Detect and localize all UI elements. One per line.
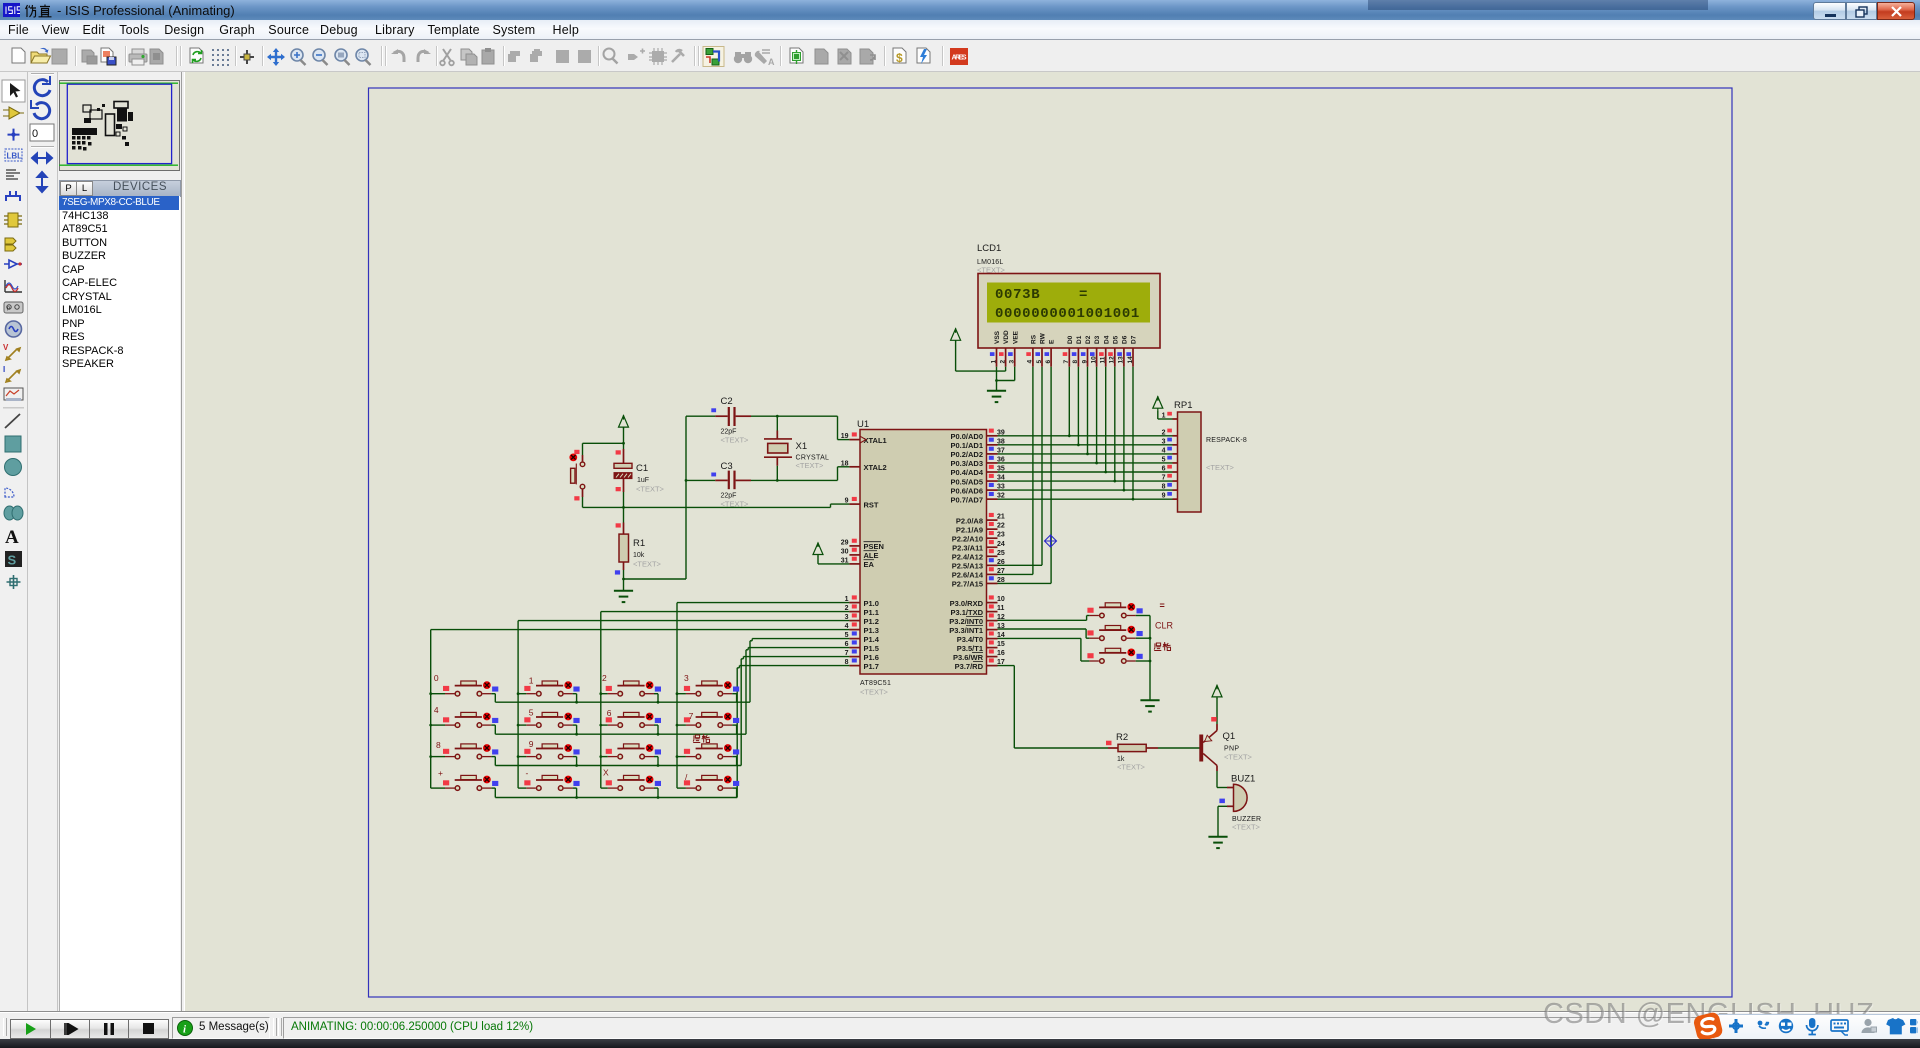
- main toolbar icons: [0, 40, 980, 71]
- svg-text:D7: D7: [1131, 335, 1138, 344]
- svg-text:5: 5: [1036, 360, 1043, 364]
- svg-text:RST: RST: [864, 500, 879, 509]
- transistor Q1 PNP: [1199, 731, 1217, 766]
- wire keypad column 2 to P1.1: [601, 612, 850, 789]
- svg-text:P0.2/AD2: P0.2/AD2: [950, 450, 983, 459]
- wire keypad row 3 to P1.7: [495, 666, 849, 798]
- U1 pin 35 (P0.4/AD4): [950, 465, 1004, 477]
- U1 pin 11 (P3.1/TXD): [950, 604, 1004, 616]
- U1 pin 1 (P1.0): [845, 595, 879, 607]
- window close button: [1877, 2, 1915, 20]
- U1 pin 7 (P1.6): [845, 649, 879, 661]
- keypad button row 1 col 3 (7): [676, 711, 740, 734]
- X1 property text: [796, 461, 825, 470]
- svg-text:C2: C2: [721, 396, 733, 407]
- svg-text:6: 6: [1162, 466, 1166, 473]
- svg-text:PSEN: PSEN: [864, 542, 884, 551]
- wire keypad row 2 to P1.6: [495, 657, 849, 766]
- left mode toolbar icons: [0, 72, 27, 1012]
- window title bar: [0, 0, 1920, 20]
- keypad button row 3 col 1 (-): [518, 768, 580, 799]
- C2 property text: [721, 436, 750, 445]
- svg-text:4: 4: [1027, 360, 1034, 364]
- wire power to EA: [818, 556, 849, 564]
- LCD1 pin 6 (E): [1045, 339, 1056, 367]
- wire power to RP1 pin 1: [1158, 410, 1173, 419]
- devices P button: [60, 181, 77, 196]
- wire P0.0 row to RP1 pin 2: [998, 435, 1173, 437]
- svg-text:LCD1: LCD1: [977, 243, 1001, 254]
- resistor R1 body: [619, 534, 629, 562]
- schematic sheet border: [369, 88, 1733, 997]
- buzzer BUZ1 symbol: [1234, 784, 1248, 811]
- keypad button row 2 col 1 (9): [517, 739, 580, 767]
- wire R1 bottom to ground: [615, 562, 686, 591]
- svg-text:P3.1/TXD: P3.1/TXD: [950, 608, 983, 617]
- U1 pin 23 (P2.2/A10): [952, 531, 1005, 543]
- svg-text:3: 3: [1009, 360, 1016, 364]
- svg-text:P3.2/INT0: P3.2/INT0: [949, 617, 983, 626]
- svg-text:A: A: [5, 527, 19, 548]
- svg-text:21: 21: [997, 514, 1005, 521]
- LCD1 value label LM016L: [977, 259, 1004, 266]
- svg-text:13: 13: [1118, 356, 1125, 364]
- overview window: [59, 80, 180, 171]
- status bar: [0, 1012, 1920, 1040]
- svg-text:D0: D0: [1067, 335, 1074, 344]
- C2 state square: [711, 408, 716, 412]
- wire power to C1 and reset button: [583, 428, 625, 464]
- keypad button row 3 col 0 (+): [431, 768, 499, 798]
- U1 pin 18 (XTAL2): [841, 460, 887, 472]
- wire LCD D7 down to P0.7 row: [1132, 367, 1135, 501]
- wire Q1 collector to BUZ1: [1217, 766, 1234, 788]
- power symbol above VSS wire: [951, 328, 961, 342]
- U1 pin 32 (P0.7/AD7): [950, 492, 1004, 504]
- svg-text:14: 14: [1127, 356, 1134, 364]
- U1 pin 38 (P0.1/AD1): [950, 438, 1004, 450]
- svg-text:P3.7/RD: P3.7/RD: [955, 662, 984, 671]
- svg-text:P1.5: P1.5: [864, 644, 879, 653]
- svg-text:D1: D1: [1076, 335, 1083, 344]
- BUZ1 reference label: [1231, 774, 1255, 785]
- U1 pin 9 (RST): [845, 497, 879, 509]
- U1 pin 14 (P3.4/T0): [957, 631, 1005, 643]
- wire LCD VEE down: [997, 367, 1015, 381]
- svg-text:12: 12: [1109, 356, 1116, 364]
- svg-text:24: 24: [997, 541, 1005, 548]
- svg-text:P3.4/T0: P3.4/T0: [957, 635, 983, 644]
- panel divider lines: [57, 72, 58, 1012]
- svg-text:7: 7: [1162, 475, 1166, 482]
- svg-text:P0.3/AD3: P0.3/AD3: [950, 459, 983, 468]
- svg-text:P0.6/AD6: P0.6/AD6: [950, 486, 983, 495]
- svg-text:-: -: [526, 768, 529, 778]
- svg-text:P2.2/A10: P2.2/A10: [952, 534, 983, 543]
- svg-text:0073B: 0073B: [995, 287, 1040, 303]
- svg-text:10: 10: [997, 596, 1005, 603]
- toolbar: [0, 40, 1920, 72]
- svg-text:P0.0/AD0: P0.0/AD0: [950, 432, 983, 441]
- svg-text:6: 6: [607, 708, 612, 718]
- taskbar items: [0, 1039, 1920, 1048]
- keypad button row 1 col 0 (4): [429, 705, 498, 734]
- Q1 property text: [1224, 753, 1253, 762]
- IME icons: [1728, 1017, 1918, 1037]
- C1 property text: [636, 485, 665, 494]
- RP1 pin 5: [1162, 456, 1178, 464]
- keypad button row 3 col 3 (/): [677, 772, 739, 798]
- svg-text:1: 1: [990, 360, 997, 364]
- svg-text:ARES: ARES: [952, 55, 967, 62]
- R1 property text: [633, 560, 662, 569]
- ground below function buttons: [1140, 700, 1159, 711]
- svg-text:9: 9: [1162, 493, 1166, 500]
- svg-text:P3.3/INT1: P3.3/INT1: [949, 626, 983, 635]
- ground below BUZ1: [1208, 837, 1227, 848]
- svg-text:9: 9: [1081, 360, 1088, 364]
- svg-text:P1.7: P1.7: [864, 662, 879, 671]
- svg-text:P2.5/A13: P2.5/A13: [952, 562, 983, 571]
- svg-text:P2.0/A8: P2.0/A8: [956, 516, 983, 525]
- RP1 pin 4: [1162, 447, 1178, 455]
- power symbol above Q1: [1212, 685, 1222, 699]
- RP1 reference label: [1174, 400, 1192, 411]
- wire LCD D3 down to P0.3 row: [1095, 367, 1098, 465]
- wire P0.5 row to RP1 pin 7: [998, 480, 1173, 482]
- svg-text:0000000001001001: 0000000001001001: [995, 306, 1140, 322]
- device list items: [59, 196, 179, 372]
- svg-text:10k: 10k: [633, 552, 645, 559]
- U1 value label AT89C51: [860, 680, 891, 687]
- wire C2 C3 left plates to ground net: [685, 416, 716, 579]
- U1 pin 37 (P0.2/AD2): [950, 447, 1004, 459]
- svg-text:22pF: 22pF: [721, 493, 737, 500]
- LCD1 pin 3 (VEE): [1008, 330, 1019, 366]
- function button equals: [1087, 603, 1150, 618]
- svg-text:P3.5/T1: P3.5/T1: [957, 644, 983, 653]
- svg-text:P1.2: P1.2: [864, 617, 879, 626]
- svg-text:7: 7: [1063, 360, 1070, 364]
- wire LCD RS down to P2.6 row: [998, 367, 1033, 575]
- wire LCD D6 down to P0.6 row: [1123, 367, 1126, 492]
- U1 reference label: [857, 419, 869, 430]
- power symbol at EA pin: [813, 543, 823, 557]
- svg-text:6: 6: [1045, 360, 1052, 364]
- LCD1 pin 10 (D3): [1090, 335, 1101, 366]
- LCD display LCD1 LM016L body: [978, 274, 1160, 349]
- title text CJK 仿真: [24, 4, 54, 18]
- wire LCD D5 down to P0.5 row: [1113, 367, 1116, 483]
- wire LCD D0 down to P0.0 row: [1068, 367, 1071, 437]
- svg-text:RS: RS: [1031, 334, 1038, 344]
- U1 pin 31 (EA): [841, 557, 875, 569]
- svg-text:1: 1: [529, 676, 534, 686]
- svg-text:3: 3: [684, 673, 689, 683]
- svg-text:8: 8: [436, 740, 441, 750]
- LCD1 pin 11 (D4): [1099, 335, 1110, 366]
- svg-text:<TEXT>: <TEXT>: [1232, 823, 1261, 832]
- svg-text:P1.4: P1.4: [864, 635, 880, 644]
- ground below R1: [614, 591, 633, 602]
- wire keypad row 1 to P1.5: [495, 648, 849, 735]
- svg-text:0: 0: [434, 673, 439, 683]
- svg-text:D6: D6: [1122, 335, 1129, 344]
- R1 value label 10k: [633, 552, 645, 559]
- svg-text:ALE: ALE: [864, 551, 879, 560]
- wire reset button top: [582, 443, 584, 455]
- animating status text: [283, 1017, 1915, 1039]
- C2 value label 22pF: [721, 429, 737, 436]
- keypad button row 0 col 2 (2): [599, 673, 661, 704]
- wire P3.4 to backspace button: [998, 638, 1090, 661]
- U1 pin 21 (P2.0/A8): [956, 513, 1005, 525]
- svg-text:5: 5: [529, 708, 534, 718]
- wire LCD VSS down: [996, 367, 998, 381]
- svg-text:<TEXT>: <TEXT>: [721, 436, 750, 445]
- svg-text:RESPACK-8: RESPACK-8: [1206, 437, 1247, 444]
- sogou IME toolbar: [1713, 1014, 1920, 1041]
- wire P0.7 row to RP1 pin 9: [998, 498, 1173, 500]
- keypad button row 3 col 2 (X): [601, 768, 661, 799]
- taskbar: [0, 1039, 1920, 1048]
- RP1 pin 8: [1162, 483, 1178, 491]
- U1 pin 6 (P1.5): [845, 640, 879, 652]
- svg-text:8: 8: [1162, 484, 1166, 491]
- wire RST row to U1 RST pin: [583, 504, 850, 509]
- svg-text:8: 8: [1072, 360, 1079, 364]
- svg-text:X1: X1: [796, 441, 808, 452]
- svg-text:22pF: 22pF: [721, 429, 737, 436]
- svg-text:XTAL1: XTAL1: [864, 436, 887, 445]
- svg-text:+: +: [438, 768, 443, 778]
- overview window mini schematic: [59, 80, 178, 169]
- wire power to Q1 emitter: [1211, 698, 1217, 731]
- mouse crosshair cursor: [1044, 535, 1057, 548]
- wire keypad row 0 to P1.4: [495, 639, 849, 703]
- R2 value label 1k: [1117, 756, 1125, 763]
- U1 pin 27 (P2.6/A14): [952, 567, 1005, 579]
- svg-text:P0.5/AD5: P0.5/AD5: [950, 477, 983, 486]
- svg-text:1uF: 1uF: [637, 477, 649, 484]
- crystal X1 symbol: [764, 431, 792, 466]
- title bar ISIS icon: [3, 3, 20, 18]
- LCD LCD1 reference label: [977, 243, 1001, 254]
- X1 value label CRYSTAL: [796, 455, 830, 462]
- R2 property text: [1117, 763, 1146, 772]
- svg-text:4: 4: [434, 705, 439, 715]
- R2 reference label: [1116, 732, 1128, 743]
- LCD1 property text: [977, 266, 1006, 275]
- U1 pin 24 (P2.3/A11): [952, 540, 1005, 552]
- electrolytic capacitor C1 symbol: [614, 463, 632, 478]
- svg-text:25: 25: [997, 550, 1005, 557]
- LCD1 pin 9 (D2): [1081, 335, 1092, 366]
- U1 pin 19 (XTAL1): [841, 432, 887, 444]
- X1 reference label: [796, 441, 808, 452]
- svg-text:C1: C1: [636, 463, 648, 474]
- C3 value label 22pF: [721, 493, 737, 500]
- simulation play button: [10, 1019, 52, 1039]
- wire keypad column 3 to P1.0: [677, 603, 849, 789]
- ground below LCD: [987, 391, 1006, 402]
- U1 property text: [860, 688, 889, 697]
- LCD1 pin 4 (RS): [1026, 334, 1037, 366]
- C1 value label 1uF: [637, 477, 649, 484]
- simulation stop button: [128, 1019, 169, 1039]
- svg-text:15: 15: [997, 641, 1005, 648]
- U1 pin 12 (P3.2/INT0): [949, 613, 1005, 625]
- BUZ1 value label BUZZER: [1232, 816, 1261, 823]
- svg-text:A: A: [768, 57, 775, 67]
- wire P0.4 row to RP1 pin 6: [998, 471, 1173, 473]
- C3 reference label: [721, 461, 733, 472]
- svg-text:RP1: RP1: [1174, 400, 1192, 411]
- svg-text:C3: C3: [721, 461, 733, 472]
- wire R2 to Q1 base: [1146, 747, 1199, 749]
- window minimize button: [1813, 2, 1846, 20]
- svg-text:Q1: Q1: [1223, 731, 1236, 742]
- wire RST net down to R1: [616, 507, 624, 534]
- svg-text:U1: U1: [857, 419, 869, 430]
- R1 reference label: [633, 538, 645, 549]
- U1 pin 17 (P3.7/RD): [955, 658, 1005, 670]
- U1 pin 33 (P0.6/AD6): [950, 483, 1004, 495]
- LCD1 pin 12 (D5): [1108, 335, 1119, 366]
- svg-text:RW: RW: [1040, 332, 1047, 344]
- U1 pin 2 (P1.1): [845, 604, 879, 616]
- LCD1 screen text row 1: [995, 287, 1087, 303]
- svg-text:D5: D5: [1112, 335, 1119, 344]
- Q1 reference label: [1223, 731, 1236, 742]
- wire P3.3 to CLR button: [998, 629, 1090, 638]
- CLR button label: [1155, 621, 1174, 631]
- RP1 pin 7: [1162, 474, 1178, 482]
- U1 pin 29 (PSEN): [841, 539, 884, 551]
- LCD1 pin 2 (VDD): [999, 330, 1010, 367]
- RP1 pin 1: [1162, 412, 1178, 420]
- keypad button row 1 col 1 (5): [517, 708, 580, 736]
- keypad button row 1 col 2 (6): [599, 708, 661, 736]
- LCD1 pin 1 (VSS): [990, 330, 1001, 366]
- U1 pin 8 (P1.7): [845, 658, 879, 670]
- wire P0.6 row to RP1 pin 8: [998, 489, 1173, 491]
- backspace button label (CJK): [1154, 642, 1170, 651]
- svg-text:S: S: [8, 553, 17, 568]
- svg-text:I: I: [3, 365, 5, 374]
- reset button (vertical): [569, 450, 584, 501]
- svg-text:XTAL2: XTAL2: [864, 463, 887, 472]
- wire P3.2 to equals button: [998, 616, 1090, 621]
- window restore button: [1846, 2, 1877, 20]
- svg-text:<TEXT>: <TEXT>: [636, 485, 665, 494]
- U1 pin 28 (P2.7/A15): [952, 576, 1005, 588]
- wire keypad column 0 to P1.3: [431, 630, 850, 789]
- svg-text:16: 16: [997, 650, 1005, 657]
- devices header label: [113, 181, 167, 193]
- LCD1 pin 7 (D0): [1063, 335, 1074, 366]
- wire function buttons common to ground: [1149, 616, 1151, 701]
- keypad button row 2 col 3 (BKSP): [676, 744, 740, 766]
- U1 pin 22 (P2.1/A9): [956, 522, 1005, 534]
- power symbol at RP1 pin 1: [1153, 396, 1163, 410]
- svg-text:=: =: [1160, 601, 1165, 611]
- svg-text:23: 23: [997, 532, 1005, 539]
- svg-text:E: E: [1049, 339, 1056, 344]
- left mode toolbar: [0, 72, 28, 1012]
- svg-text:D4: D4: [1103, 335, 1110, 344]
- wire LCD RW down to P2.5 row: [998, 367, 1043, 566]
- U1 pin 5 (P1.4): [845, 631, 880, 643]
- U1 pin 15 (P3.5/T1): [957, 640, 1005, 652]
- devices L button: [76, 181, 93, 196]
- svg-text:3: 3: [1162, 438, 1166, 445]
- U1 pin 10 (P3.0/RXD): [950, 595, 1005, 607]
- wire C1 bottom to RST net: [616, 479, 624, 508]
- svg-text:<TEXT>: <TEXT>: [633, 560, 662, 569]
- power symbol above C1: [619, 415, 629, 429]
- capacitor C2 symbol: [715, 407, 751, 426]
- wire P0.2 row to RP1 pin 4: [998, 453, 1173, 455]
- microcontroller U1 AT89C51 body: [860, 430, 987, 675]
- wire BUZ1 bottom to ground: [1218, 799, 1234, 837]
- wire P3.7 to R2: [998, 666, 1119, 748]
- svg-text:5: 5: [1162, 456, 1166, 463]
- LCD1 pin 8 (D1): [1072, 335, 1083, 366]
- svg-text:P0.4/AD4: P0.4/AD4: [950, 468, 983, 477]
- wire C3 to X1 bottom and XTAL2: [751, 466, 849, 482]
- svg-text:P1.1: P1.1: [864, 608, 879, 617]
- keypad button row 0 col 0 (0): [429, 673, 498, 702]
- equals button label: [1160, 601, 1165, 611]
- svg-text:$: $: [896, 51, 903, 65]
- svg-text:P3.0/RXD: P3.0/RXD: [950, 599, 984, 608]
- svg-text:<TEXT>: <TEXT>: [1117, 763, 1146, 772]
- U1 pin 30 (ALE): [841, 548, 879, 560]
- RP1 property text: [1206, 463, 1235, 472]
- svg-text:30: 30: [841, 548, 849, 555]
- keypad button row 2 col 2: [599, 744, 661, 767]
- LCD1 pin 5 (RW): [1035, 332, 1046, 366]
- svg-text:P0.1/AD1: P0.1/AD1: [950, 441, 983, 450]
- svg-text:<TEXT>: <TEXT>: [1224, 753, 1253, 762]
- svg-text:D3: D3: [1094, 335, 1101, 344]
- svg-text:P1.0: P1.0: [864, 599, 879, 608]
- svg-text:<TEXT>: <TEXT>: [860, 688, 889, 697]
- svg-text:2: 2: [602, 673, 607, 683]
- svg-text:P1.3: P1.3: [864, 626, 879, 635]
- sogou logo: [1691, 1011, 1725, 1041]
- svg-text:X: X: [603, 768, 609, 778]
- LCD1 screen text row 2: [995, 306, 1140, 322]
- svg-text:P2.6/A14: P2.6/A14: [952, 571, 984, 580]
- svg-text:9: 9: [529, 739, 534, 749]
- svg-text:VEE: VEE: [1012, 330, 1019, 344]
- svg-text:<TEXT>: <TEXT>: [796, 461, 825, 470]
- keypad button row 0 col 1 (1): [517, 676, 580, 704]
- U1 pin 26 (P2.5/A13): [952, 558, 1005, 570]
- BUZ1 property text: [1232, 823, 1261, 832]
- svg-text:VSS: VSS: [994, 330, 1001, 344]
- wire LCD D2 down to P0.2 row: [1086, 367, 1089, 456]
- svg-text:P1.6: P1.6: [864, 653, 879, 662]
- keypad button row 2 col 0 (8): [429, 740, 498, 766]
- U1 pin 4 (P1.3): [845, 622, 879, 634]
- LCD1 green screen: [987, 283, 1150, 323]
- devices list: [59, 196, 180, 1012]
- wire P0.1 row to RP1 pin 3: [998, 444, 1173, 446]
- U1 pin 16 (P3.6/WR): [953, 649, 1005, 661]
